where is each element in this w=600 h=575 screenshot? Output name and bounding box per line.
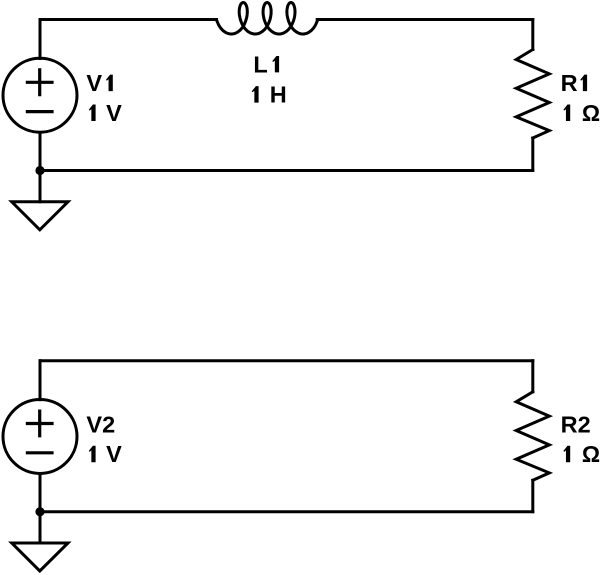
wire: top-right horizontal (L1 to R1) [317,18,533,21]
svg-text:V2: V2 [86,411,115,437]
svg-text:H: H [270,82,287,108]
label: V1 value 1 V [89,105,96,121]
wire: V1 bottom to ground [39,133,42,202]
label: R1 value 1 ohm [563,105,570,121]
svg-text:L: L [253,51,267,77]
wire: R2 upper lead [531,361,534,392]
wire: left vertical from top wire to V1 [39,20,42,59]
svg-text:Ω: Ω [582,100,600,126]
svg-text:R: R [561,70,578,96]
V1 plus sign [27,70,52,95]
svg-text:R2: R2 [561,411,591,437]
node: junction dot of bottom circuit [35,507,44,516]
svg-text:V: V [106,100,122,126]
svg-text:V: V [106,441,122,467]
wire: bottom horizontal of top circuit [40,169,533,172]
V2 minus sign [27,451,52,454]
voltage source V2 circle [3,399,77,473]
label: V2 value 1 V [89,446,96,462]
wire: R1 lower lead [531,138,534,171]
V2 plus sign [27,411,52,436]
wire: left vertical from top wire to V2 [39,361,42,400]
resistor R1 zigzag [516,50,549,139]
wire: R2 lower lead [531,480,534,511]
svg-text:Ω: Ω [582,441,600,467]
wire: V2 bottom to ground [39,474,42,543]
ground symbol of top circuit [12,202,68,230]
inductor L1 coil [217,3,318,35]
label: L1 value 1 H [252,86,259,102]
wire: top-left horizontal (V1 to L1) [40,18,217,21]
ground symbol of bottom circuit [12,543,68,571]
node: junction dot of top circuit [35,166,44,175]
wire: bottom horizontal of bottom circuit [40,510,533,513]
voltage source V1 circle [3,58,77,132]
resistor R2 zigzag [516,392,549,481]
label: R2 value 1 ohm [563,446,570,462]
wire: R1 upper lead [531,20,534,50]
V1 minus sign [27,110,52,113]
wire: top horizontal of bottom circuit [40,359,533,362]
svg-text:V: V [86,70,102,96]
